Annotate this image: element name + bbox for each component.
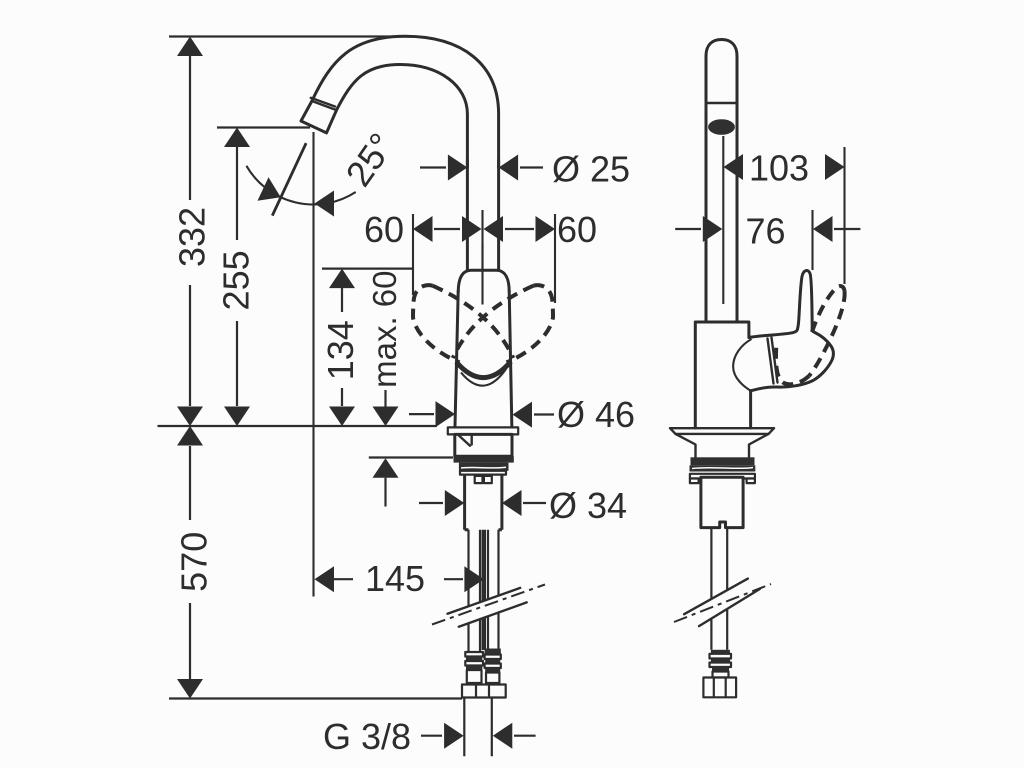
dimension 103 [724, 148, 845, 189]
svg-text:G 3/8: G 3/8 [323, 716, 411, 757]
swivel joint bowl arc (thin) [461, 369, 506, 386]
aerator line (side) [706, 102, 737, 104]
pipe break symbol (front view) [432, 585, 545, 627]
faucet body left edge [455, 291, 458, 434]
washer band [460, 471, 506, 475]
handle swung right (dashed diagonal stroke) [453, 286, 534, 358]
handle lever solid (side view) [749, 271, 833, 391]
wire: top reference line y=36.5 [169, 35, 413, 37]
dimension D25 [420, 149, 630, 190]
cartridge bulge (side view) [733, 339, 751, 391]
svg-text:145: 145 [365, 558, 425, 599]
reference line for 103 [843, 147, 845, 284]
hose connector left (front view) [465, 652, 483, 683]
connection stubs [464, 698, 492, 757]
wire: counter underside line [369, 456, 453, 458]
dimension 255 [216, 128, 257, 427]
dimension 145 [315, 558, 484, 599]
reference line for 76 [811, 210, 813, 270]
washer with tabs (side view) [690, 474, 755, 479]
dimension 60/60 swivel range [364, 209, 597, 305]
svg-text:Ø 46: Ø 46 [557, 394, 635, 435]
set screw mark [459, 435, 472, 446]
svg-text:255: 255 [216, 250, 257, 310]
pipe front edge line (side) [722, 136, 724, 304]
wire: bottom reference line [169, 697, 462, 699]
swivel joint bowl arc (thick) [456, 362, 511, 378]
mounting nut (side view) [691, 457, 755, 465]
svg-text:76: 76 [746, 211, 786, 252]
dimension angle 25 deg: arc [246, 166, 355, 205]
svg-text:60: 60 [364, 209, 404, 250]
svg-text:Ø 25: Ø 25 [552, 149, 630, 190]
mounting nut dark band 2 [459, 463, 509, 471]
wire: vertical reference line from spout outlet [312, 132, 314, 597]
wire: spout tip reference line y=127.5 [217, 126, 310, 128]
handle front face lines [768, 338, 778, 384]
threaded shank (front view) [465, 475, 502, 530]
wire: counter top line [158, 425, 437, 427]
faucet body right edge [509, 291, 512, 434]
dimension 134 [320, 269, 361, 426]
svg-text:570: 570 [174, 532, 215, 592]
hose connector right (front view) [485, 649, 501, 684]
dimension G 3/8 [323, 716, 536, 757]
body lower right edge (side view) [749, 391, 752, 428]
handle swung left (dashed diagonal stroke) [433, 286, 514, 358]
spout inner curve [337, 65, 468, 168]
aerator joint lines [311, 98, 337, 110]
escutcheon flange (side view) [670, 428, 774, 434]
handle raised position (dashed, side view) [812, 286, 845, 332]
spout pipe (side view) [706, 40, 737, 322]
body block in counter (front view) [455, 434, 512, 456]
dimension max. 60 [366, 271, 403, 507]
faucet body silhouette (front view) [455, 270, 512, 434]
flange skirt (side view) [676, 434, 769, 457]
svg-text:134: 134 [320, 320, 361, 380]
svg-text:332: 332 [172, 207, 213, 267]
supply tube (side view) [711, 528, 727, 650]
aerator opening (dark ellipse) [708, 119, 735, 135]
threaded shank (side view) [701, 477, 743, 527]
dimension angle 25 deg: slanted line [272, 143, 306, 216]
dimension angle 25 deg: right arrowhead [315, 191, 335, 217]
centerline tick inside dome [481, 244, 483, 305]
faucet body top dome outline [458, 270, 509, 292]
svg-text:103: 103 [749, 148, 809, 189]
dimension 76 [675, 211, 860, 252]
svg-text:Ø 34: Ø 34 [549, 485, 627, 526]
wire: handle-top reference line y=268.6 [322, 268, 414, 270]
spout pipe right edge [497, 160, 500, 270]
svg-text:60: 60 [557, 209, 597, 250]
svg-text:max. 60: max. 60 [366, 271, 403, 388]
supply hoses (front view) [469, 530, 499, 652]
handle swung right: outer loop [507, 285, 554, 362]
body block (side view) [695, 322, 749, 428]
escutcheon flange (front view) [448, 427, 518, 434]
dimension D34 [419, 485, 627, 526]
dimension 332 [172, 37, 213, 427]
connection nuts (front view) [462, 685, 506, 698]
hose connector (side view) [710, 650, 732, 678]
dimension 570 [174, 426, 215, 699]
dimension D46 [409, 394, 635, 435]
aerator outlet face [301, 101, 337, 133]
pipe break symbol (side view) [674, 579, 771, 627]
spout outer curve [312, 36, 499, 167]
connection nut (side view) [703, 678, 736, 698]
clamp squares [475, 476, 483, 483]
handle swung left: outer loop [413, 285, 460, 362]
spout pipe left edge [466, 160, 469, 270]
mounting nut dark band 1 [454, 456, 514, 462]
dimension angle 25 deg: left arrowhead [258, 177, 281, 201]
